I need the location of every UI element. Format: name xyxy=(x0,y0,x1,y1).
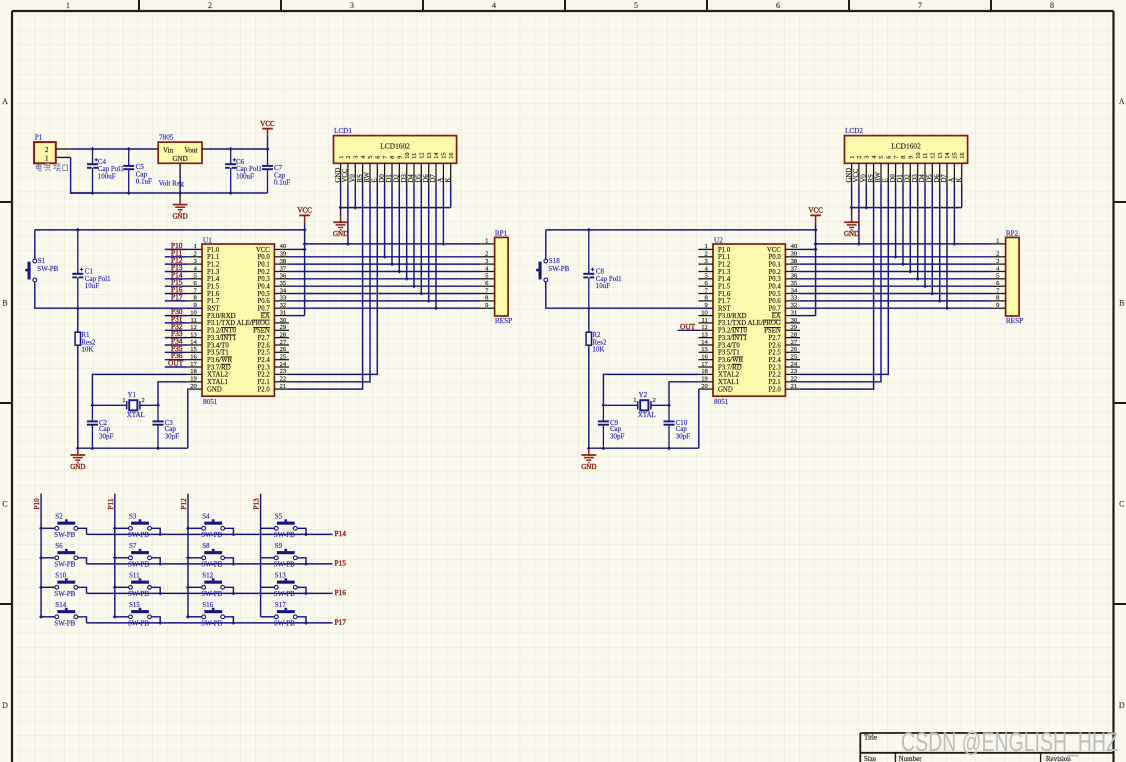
svg-text:A: A xyxy=(438,178,445,183)
svg-text:P3.1/TXD: P3.1/TXD xyxy=(718,320,746,327)
svg-text:P1.0: P1.0 xyxy=(207,247,220,254)
svg-text:E: E xyxy=(372,178,379,182)
junction column xyxy=(113,556,117,560)
push button S3 xyxy=(115,513,160,539)
svg-text:SW-PB: SW-PB xyxy=(37,265,58,273)
junction LCD VCC pin xyxy=(857,242,861,246)
svg-text:16: 16 xyxy=(448,153,455,159)
svg-text:OUT: OUT xyxy=(680,322,696,331)
wire LCD D6 down xyxy=(428,184,430,301)
svg-text:22: 22 xyxy=(791,376,798,383)
svg-text:P1.4: P1.4 xyxy=(207,276,220,283)
junction column xyxy=(113,526,117,530)
junction C5 top xyxy=(127,147,131,151)
svg-text:P2.6: P2.6 xyxy=(258,342,271,349)
svg-text:S3: S3 xyxy=(129,513,137,521)
junction column xyxy=(39,615,43,619)
svg-text:P3.4/T0: P3.4/T0 xyxy=(718,342,740,349)
wire LCD D4 down xyxy=(924,184,926,286)
wire VCC to RP pin1 xyxy=(816,243,991,245)
capacitor C1 xyxy=(72,230,111,308)
svg-text:P3.1/TXD: P3.1/TXD xyxy=(207,320,235,327)
svg-text:P2.0: P2.0 xyxy=(769,386,782,393)
junction C6 bottom xyxy=(229,191,233,195)
junction D4 xyxy=(412,284,416,288)
svg-text:RP1: RP1 xyxy=(495,229,508,237)
wire VCC vertical U2 xyxy=(815,223,817,316)
svg-text:VCC: VCC xyxy=(256,247,270,254)
svg-text:30: 30 xyxy=(280,317,287,324)
svg-text:8: 8 xyxy=(900,156,907,159)
junction D0 xyxy=(894,255,898,259)
svg-text:19: 19 xyxy=(190,376,197,383)
svg-text:VCC: VCC xyxy=(767,247,781,254)
junction column xyxy=(39,585,43,589)
svg-text:24: 24 xyxy=(280,361,287,368)
wire EA to VCC xyxy=(800,315,816,317)
svg-text:RESP: RESP xyxy=(495,317,512,325)
wire LCD D1 down xyxy=(902,184,904,264)
wire LCD pin1 down xyxy=(851,184,853,208)
svg-text:LCD1: LCD1 xyxy=(334,127,352,135)
svg-text:D: D xyxy=(1119,701,1125,710)
junction LCD backlight A xyxy=(441,242,445,246)
svg-text:18: 18 xyxy=(190,368,197,375)
junction column xyxy=(186,615,190,619)
svg-text:P0.5: P0.5 xyxy=(769,291,782,298)
svg-text:8051: 8051 xyxy=(714,398,729,406)
wire P0.3 row xyxy=(800,278,991,280)
svg-text:11: 11 xyxy=(190,317,196,324)
svg-text:28: 28 xyxy=(280,331,287,338)
svg-text:Y2: Y2 xyxy=(639,391,648,399)
svg-text:P1.6: P1.6 xyxy=(207,291,220,298)
wire VCC rail above U1 xyxy=(35,229,305,231)
junction crystal left xyxy=(601,403,605,407)
capacitor C6 xyxy=(225,149,262,193)
wire LCD D4 down xyxy=(413,184,415,286)
wire LCD RW to P2.1 xyxy=(289,184,370,382)
svg-text:V0: V0 xyxy=(861,174,868,183)
svg-text:6: 6 xyxy=(375,156,382,159)
junction 7805 GND on rail xyxy=(178,191,182,195)
svg-text:17: 17 xyxy=(190,361,197,368)
wire LCD pin3 down xyxy=(865,184,867,208)
svg-text:2: 2 xyxy=(345,156,352,159)
svg-text:17: 17 xyxy=(701,361,708,368)
crystal Y1 xyxy=(92,391,158,419)
svg-text:12: 12 xyxy=(190,324,197,331)
svg-text:E: E xyxy=(883,178,890,182)
junction rail C3 xyxy=(667,446,671,450)
svg-text:S7: S7 xyxy=(129,542,137,550)
wire LCD pin3 down xyxy=(354,184,356,208)
svg-text:P3.2/INT0: P3.2/INT0 xyxy=(718,328,747,335)
svg-text:VCC: VCC xyxy=(342,168,349,182)
svg-text:P1.5: P1.5 xyxy=(718,284,731,291)
svg-text:P3.3/INT1: P3.3/INT1 xyxy=(207,335,236,342)
svg-text:8051: 8051 xyxy=(203,398,218,406)
svg-text:P0.1: P0.1 xyxy=(769,261,781,268)
svg-text:D7: D7 xyxy=(941,174,948,183)
svg-text:8: 8 xyxy=(389,156,396,159)
junction VCC pin40 xyxy=(303,247,307,251)
svg-text:11: 11 xyxy=(701,317,707,324)
svg-text:S16: S16 xyxy=(202,601,213,609)
wire P0.2 row xyxy=(800,271,991,273)
svg-text:30pF: 30pF xyxy=(610,432,625,440)
svg-text:10K: 10K xyxy=(592,346,604,354)
junction rail C2 xyxy=(601,446,605,450)
junction LCD backlight A xyxy=(952,242,956,246)
wire 7805 GND down xyxy=(179,170,181,198)
junction column xyxy=(113,585,117,589)
svg-text:D1: D1 xyxy=(897,174,904,182)
svg-text:D5: D5 xyxy=(416,174,423,183)
U2 pin12 wire with net label OUT xyxy=(678,329,699,331)
junction D6 xyxy=(427,299,431,303)
junction C6 top xyxy=(229,147,233,151)
svg-text:0.1uF: 0.1uF xyxy=(274,179,290,187)
push button S10 xyxy=(41,572,86,598)
svg-text:21: 21 xyxy=(791,383,798,390)
svg-text:GND: GND xyxy=(173,155,188,163)
svg-text:31: 31 xyxy=(791,309,798,316)
svg-text:C: C xyxy=(1119,500,1124,509)
svg-text:P0.2: P0.2 xyxy=(258,269,271,276)
svg-text:29: 29 xyxy=(280,324,287,331)
wire P0.5 row xyxy=(800,293,991,295)
svg-text:ALE/PROG: ALE/PROG xyxy=(748,320,781,327)
junction column xyxy=(186,556,190,560)
svg-text:PSEN: PSEN xyxy=(253,328,270,335)
junction D1 xyxy=(390,262,394,266)
svg-text:P3.5/T1: P3.5/T1 xyxy=(718,350,740,357)
crystal Y2 xyxy=(603,391,669,419)
svg-text:VCC: VCC xyxy=(808,207,823,215)
wire MCU GND pin 20 down to rail xyxy=(186,389,188,448)
svg-text:18: 18 xyxy=(701,368,708,375)
wire P0.1 row xyxy=(289,263,480,265)
8051 MCU U2 xyxy=(698,236,800,406)
svg-text:P2.5: P2.5 xyxy=(769,350,782,357)
svg-text:D: D xyxy=(2,701,8,710)
svg-text:RST: RST xyxy=(207,306,220,313)
svg-text:B: B xyxy=(2,299,7,308)
svg-text:Vin: Vin xyxy=(163,147,174,155)
junction D7 xyxy=(945,306,949,310)
svg-text:3: 3 xyxy=(864,156,871,159)
LCD module LCD2 xyxy=(845,127,968,184)
svg-text:30: 30 xyxy=(791,317,798,324)
wire P0.4 row xyxy=(800,285,991,287)
wire P0.5 row xyxy=(289,293,480,295)
push button S16 xyxy=(188,601,233,627)
svg-text:RESP: RESP xyxy=(1006,317,1023,325)
junction D2 xyxy=(397,270,401,274)
svg-text:13: 13 xyxy=(937,153,944,159)
svg-text:P0.4: P0.4 xyxy=(769,284,782,291)
svg-text:D0: D0 xyxy=(379,174,386,183)
svg-text:40: 40 xyxy=(791,243,798,250)
svg-text:K: K xyxy=(445,178,452,183)
svg-text:13: 13 xyxy=(701,331,708,338)
svg-text:P0.0: P0.0 xyxy=(769,254,782,261)
junction D4 xyxy=(923,284,927,288)
junction column xyxy=(186,526,190,530)
svg-text:SW-PB: SW-PB xyxy=(54,531,75,539)
svg-text:37: 37 xyxy=(791,265,798,272)
svg-text:100uF: 100uF xyxy=(236,172,254,180)
svg-text:XTAL: XTAL xyxy=(127,411,145,419)
svg-text:36: 36 xyxy=(280,273,287,280)
svg-text:EA: EA xyxy=(261,313,270,320)
svg-text:GND: GND xyxy=(846,168,853,183)
svg-text:1: 1 xyxy=(45,154,49,162)
svg-text:22: 22 xyxy=(280,376,287,383)
junction D6 xyxy=(938,299,942,303)
svg-text:P10: P10 xyxy=(33,498,41,510)
svg-text:39: 39 xyxy=(791,251,798,258)
svg-text:P12: P12 xyxy=(180,498,188,510)
svg-text:10K: 10K xyxy=(81,346,93,354)
svg-text:LCD1602: LCD1602 xyxy=(891,141,921,150)
wire LCD D0 down xyxy=(895,184,897,257)
push button S4 xyxy=(188,513,233,539)
wire P0.1 row xyxy=(800,263,991,265)
wire LCD D2 down xyxy=(909,184,911,272)
junction column xyxy=(39,526,43,530)
svg-text:EA: EA xyxy=(772,313,781,320)
wire LCD D3 down xyxy=(406,184,408,279)
junction C4 top xyxy=(91,147,95,151)
junction C5 bottom xyxy=(127,191,131,195)
svg-text:P13: P13 xyxy=(253,498,261,510)
svg-text:P1.3: P1.3 xyxy=(718,269,731,276)
push button S14 xyxy=(41,601,86,627)
LCD ground rail xyxy=(852,207,962,209)
svg-text:GND: GND xyxy=(333,230,348,238)
svg-text:4: 4 xyxy=(492,1,496,10)
svg-text:8: 8 xyxy=(1050,1,1054,10)
svg-text:P1.2: P1.2 xyxy=(207,261,220,268)
svg-text:P1.5: P1.5 xyxy=(207,284,220,291)
svg-text:P1: P1 xyxy=(35,134,43,142)
junction VCC drop xyxy=(266,147,270,151)
power port VCC U2 xyxy=(808,207,823,223)
svg-text:1: 1 xyxy=(338,156,345,159)
junction C4 bottom xyxy=(91,191,95,195)
svg-text:2: 2 xyxy=(996,251,999,258)
wire LCD pin16 down xyxy=(450,184,452,208)
svg-text:D2: D2 xyxy=(905,174,912,183)
junction cap top xyxy=(76,228,80,232)
wire LCD D7 down xyxy=(946,184,948,308)
svg-text:P0.3: P0.3 xyxy=(258,276,271,283)
svg-text:19: 19 xyxy=(701,376,708,383)
keypad row bus wire P17 xyxy=(87,622,333,624)
LCD module LCD1 xyxy=(334,127,457,184)
wire LCD RW to P2.1 xyxy=(800,184,881,382)
svg-text:P2.0: P2.0 xyxy=(258,386,271,393)
wire LCD RS to P2.0 xyxy=(289,184,363,389)
capacitor C8 xyxy=(583,230,622,308)
power port GND LCD xyxy=(333,208,348,239)
junction crystal right xyxy=(156,403,160,407)
svg-text:Size: Size xyxy=(864,755,876,762)
svg-text:1: 1 xyxy=(122,397,125,404)
svg-text:26: 26 xyxy=(791,346,798,353)
svg-text:30pF: 30pF xyxy=(676,432,691,440)
junction column xyxy=(39,556,43,560)
svg-text:Y1: Y1 xyxy=(128,391,137,399)
svg-text:20: 20 xyxy=(190,383,197,390)
svg-text:P1.4: P1.4 xyxy=(718,276,731,283)
svg-text:6: 6 xyxy=(886,156,893,159)
svg-text:15: 15 xyxy=(441,153,448,159)
svg-text:21: 21 xyxy=(280,383,287,390)
junction cap bottom / resistor top xyxy=(587,306,591,310)
svg-text:P1.3: P1.3 xyxy=(207,269,220,276)
svg-text:5: 5 xyxy=(634,1,638,10)
power port VCC U1 xyxy=(297,207,312,223)
svg-text:31: 31 xyxy=(280,309,287,316)
voltage regulator 7805 xyxy=(152,134,209,188)
keypad row bus wire P15 xyxy=(87,563,333,565)
svg-text:GND: GND xyxy=(173,212,188,220)
svg-text:1: 1 xyxy=(485,238,488,245)
svg-text:D6: D6 xyxy=(934,174,941,183)
svg-text:S2: S2 xyxy=(55,513,63,521)
junction crystal right xyxy=(667,403,671,407)
svg-text:7805: 7805 xyxy=(159,134,174,142)
svg-text:P1.1: P1.1 xyxy=(718,254,730,261)
svg-text:D4: D4 xyxy=(919,174,926,183)
svg-text:P3.6/WR: P3.6/WR xyxy=(207,357,233,364)
svg-text:16: 16 xyxy=(959,153,966,159)
wire P0.0 row xyxy=(800,256,991,258)
junction LCD VCC pin xyxy=(346,242,350,246)
svg-text:29: 29 xyxy=(791,324,798,331)
svg-text:P2.1: P2.1 xyxy=(769,379,781,386)
svg-text:P17: P17 xyxy=(171,292,183,301)
svg-text:S10: S10 xyxy=(55,572,66,580)
svg-text:14: 14 xyxy=(701,339,708,346)
keypad row bus wire P14 xyxy=(87,533,333,535)
svg-text:35: 35 xyxy=(280,280,287,287)
capacitor C4 xyxy=(87,149,124,193)
wire pin40 to VCC xyxy=(800,248,816,250)
svg-text:16: 16 xyxy=(190,354,197,361)
svg-text:20: 20 xyxy=(701,383,708,390)
svg-text:P0.5: P0.5 xyxy=(258,291,271,298)
junction D3 xyxy=(405,277,409,281)
svg-text:Title: Title xyxy=(864,734,877,742)
power port GND 7805 xyxy=(173,198,188,221)
junction VCC wire LCD xyxy=(303,242,307,246)
junction D0 xyxy=(383,255,387,259)
ground rail of power section xyxy=(71,192,268,194)
junction row bus xyxy=(231,562,235,566)
svg-text:7: 7 xyxy=(918,1,922,10)
svg-text:2: 2 xyxy=(208,1,212,10)
svg-text:P2.6: P2.6 xyxy=(769,342,782,349)
svg-text:RST: RST xyxy=(718,306,731,313)
wire P1 pin1 down to ground rail xyxy=(71,157,93,193)
svg-text:D1: D1 xyxy=(386,174,393,182)
svg-text:33: 33 xyxy=(280,295,287,302)
svg-text:S6: S6 xyxy=(55,542,63,550)
svg-text:D7: D7 xyxy=(430,174,437,183)
svg-text:1: 1 xyxy=(194,243,197,250)
svg-text:P0.6: P0.6 xyxy=(258,298,271,305)
svg-text:14: 14 xyxy=(944,153,951,159)
svg-text:12: 12 xyxy=(930,153,937,159)
svg-text:B: B xyxy=(1119,299,1124,308)
LCD ground rail xyxy=(341,207,451,209)
svg-text:13: 13 xyxy=(190,331,197,338)
junction rail C2 xyxy=(90,446,94,450)
push button S15 xyxy=(115,601,160,627)
svg-text:GND: GND xyxy=(718,386,733,393)
svg-text:P1.6: P1.6 xyxy=(718,291,731,298)
svg-text:P1.7: P1.7 xyxy=(718,298,731,305)
svg-text:S9: S9 xyxy=(275,542,283,550)
keypad column lines with net labels P10-P13 xyxy=(33,494,261,617)
push button S5 xyxy=(261,513,306,539)
svg-text:9: 9 xyxy=(397,156,404,159)
svg-text:S17: S17 xyxy=(275,601,286,609)
svg-text:P2.3: P2.3 xyxy=(258,364,271,371)
svg-text:36: 36 xyxy=(791,273,798,280)
svg-text:10: 10 xyxy=(915,153,922,159)
svg-text:GND: GND xyxy=(581,463,596,471)
svg-text:S5: S5 xyxy=(275,513,283,521)
svg-text:D0: D0 xyxy=(890,174,897,183)
wire 7805 Vout to VCC xyxy=(209,148,268,150)
svg-text:100uF: 100uF xyxy=(98,172,116,180)
svg-text:P15: P15 xyxy=(335,558,347,567)
junction column xyxy=(113,615,117,619)
wire MCU GND pin 20 down to rail xyxy=(697,389,699,448)
junction LCD V0 xyxy=(353,206,357,210)
svg-text:1: 1 xyxy=(996,238,999,245)
svg-text:P1.7: P1.7 xyxy=(207,298,220,305)
capacitor C2 xyxy=(87,405,114,448)
svg-text:GND: GND xyxy=(844,230,859,238)
junction row bus xyxy=(231,621,235,625)
svg-text:6: 6 xyxy=(776,1,780,10)
junction D1 xyxy=(901,262,905,266)
wire P0.3 row xyxy=(289,278,480,280)
resistor pack RP1 xyxy=(480,229,512,324)
svg-text:P2.4: P2.4 xyxy=(769,357,782,364)
svg-text:XTAL1: XTAL1 xyxy=(207,379,228,386)
push button S18 xyxy=(536,230,589,308)
push button S1 xyxy=(25,230,78,308)
svg-text:35: 35 xyxy=(791,280,798,287)
svg-text:2: 2 xyxy=(653,397,656,404)
svg-text:P1.2: P1.2 xyxy=(718,261,731,268)
wire P0.7 row xyxy=(289,307,480,309)
svg-text:11: 11 xyxy=(411,153,418,159)
junction row bus xyxy=(231,591,235,595)
resistor R2 xyxy=(586,308,607,448)
wire LCD D5 down xyxy=(420,184,422,294)
wire ground rail under crystal xyxy=(589,447,699,449)
wire LCD D6 down xyxy=(939,184,941,301)
svg-text:5: 5 xyxy=(367,156,374,159)
